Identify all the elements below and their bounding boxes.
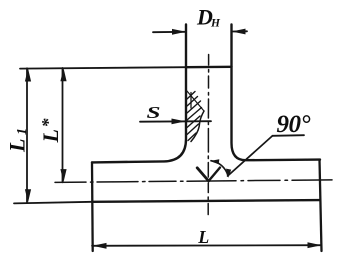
svg-text:1: 1 [15,128,30,135]
svg-text:S: S [147,103,161,122]
svg-text:L: L [38,129,63,143]
svg-text:L: L [197,227,209,247]
svg-text:90°: 90° [277,111,311,138]
svg-text:L: L [5,139,30,153]
svg-text:H: H [210,18,221,30]
svg-text:*: * [38,118,58,128]
